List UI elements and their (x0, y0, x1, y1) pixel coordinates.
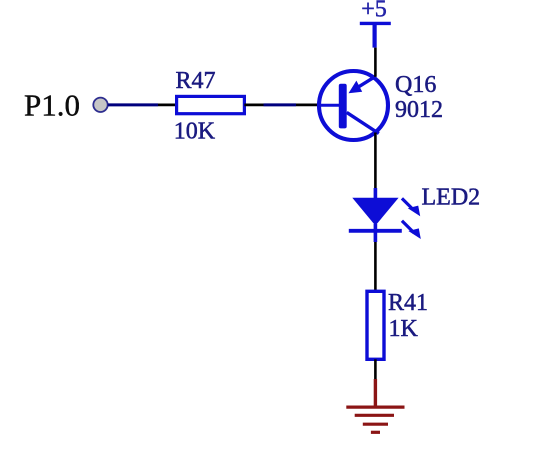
transistor Q16 collector line (347, 112, 379, 133)
svg-text:+5: +5 (361, 0, 387, 23)
wire P1.0 to R47 (net segment) (108, 103, 158, 106)
ground bar 1 (346, 406, 404, 409)
LED D2 cathode bar (349, 229, 402, 233)
svg-text:R41: R41 (388, 290, 428, 316)
svg-text:Q16: Q16 (395, 72, 436, 98)
transistor Q16 emitter arrowhead (PNP, pointing at base) (349, 81, 363, 94)
LED D2 emission arrow 2 (402, 221, 421, 239)
ground bar 3 (363, 423, 388, 426)
LED D2 emission arrow 1 (402, 198, 420, 216)
LED D2 triangle (352, 198, 398, 226)
transistor Q16 body circle (319, 71, 388, 140)
ground bar 4 (371, 431, 380, 434)
svg-text:P1.0: P1.0 (24, 88, 80, 123)
power symbol +5 bar (360, 22, 391, 25)
wire +5 to Q16 emitter (374, 48, 377, 77)
svg-text:1K: 1K (389, 316, 419, 342)
svg-text:LED2: LED2 (422, 185, 481, 211)
resistor R47 right pin lead (244, 104, 263, 107)
wire LED2 to R41 (374, 242, 377, 292)
ground stem (374, 379, 377, 407)
wire Q16 collector to LED2 (374, 133, 377, 189)
svg-text:10K: 10K (174, 118, 216, 144)
svg-text:R47: R47 (176, 68, 216, 94)
transistor Q16 base lead inside body (320, 104, 340, 107)
wire R47 to Q16 base (net segment) (264, 103, 297, 106)
ground bar 2 (355, 414, 394, 417)
svg-text:9012: 9012 (395, 97, 443, 123)
transistor Q16 emitter line (353, 76, 375, 90)
LED D2 cathode pin lead (374, 224, 378, 242)
resistor R41 body (367, 291, 384, 359)
power symbol +5 stem (373, 23, 377, 47)
LED D2 anode pin lead (374, 188, 378, 200)
pin terminal circle (93, 98, 107, 112)
transistor Q16 base bar (339, 84, 347, 129)
resistor R47 body (177, 96, 245, 113)
transistor Q16 base pin lead (296, 104, 320, 107)
resistor R47 left pin lead (158, 104, 177, 107)
wire R41 to ground (374, 359, 377, 380)
